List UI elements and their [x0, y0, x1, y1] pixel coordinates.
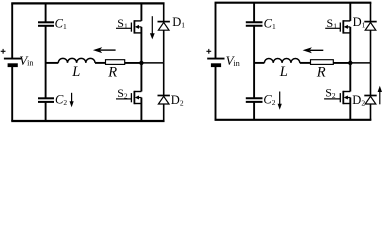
svg-text:R: R	[107, 64, 117, 80]
svg-text:L: L	[279, 64, 288, 80]
svg-text:L: L	[71, 64, 80, 80]
svg-text:R: R	[316, 64, 326, 80]
